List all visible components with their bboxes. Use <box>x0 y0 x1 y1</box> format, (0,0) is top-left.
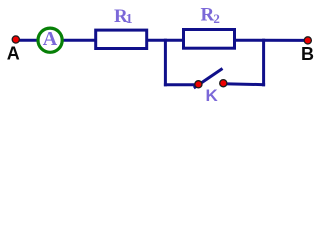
switch K right contact <box>220 80 227 87</box>
node A terminal dot <box>12 36 19 43</box>
svg-text:R: R <box>201 5 215 26</box>
svg-text:A: A <box>43 28 58 50</box>
switch K blade <box>194 69 223 89</box>
ammeter (circle A) <box>38 28 62 52</box>
label R2 <box>201 5 220 27</box>
label R1 <box>114 6 133 27</box>
wire bottom left (junction to switch left contact) <box>164 83 199 86</box>
resistor R1 <box>96 30 147 48</box>
wire R2 to node B <box>234 39 306 42</box>
label K <box>205 86 218 105</box>
wire A to ammeter <box>17 39 39 42</box>
wire R1 to R2 <box>146 39 184 42</box>
wire bottom right (switch right contact to junction) <box>223 84 265 85</box>
svg-text:A: A <box>7 44 20 64</box>
wire ammeter to R1 <box>61 39 96 42</box>
svg-text:B: B <box>301 44 314 64</box>
wire junction left vertical (R1-R2 node down to switch branch) <box>164 39 167 87</box>
label A <box>7 44 20 64</box>
svg-text:2: 2 <box>213 11 220 26</box>
svg-text:1: 1 <box>126 12 133 27</box>
label B <box>301 44 314 64</box>
switch K left contact <box>195 81 202 88</box>
resistor R2 <box>184 30 235 49</box>
svg-text:K: K <box>205 86 218 105</box>
wire junction right vertical (R2-B node down to switch branch) <box>262 39 265 87</box>
node B terminal dot <box>304 37 311 44</box>
